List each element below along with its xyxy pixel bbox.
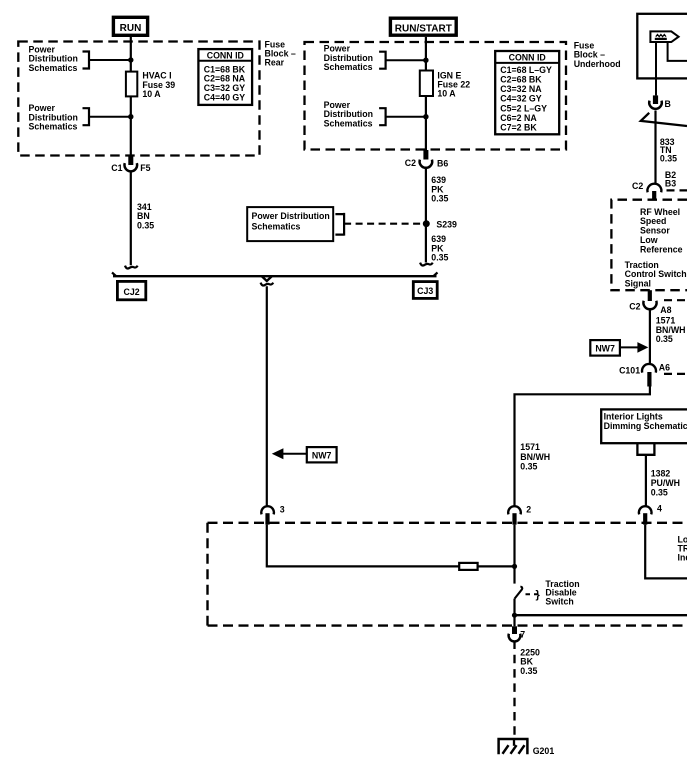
svg-text:NW7: NW7 — [595, 344, 615, 354]
svg-text:0.35: 0.35 — [431, 253, 448, 263]
svg-text:Interior Lights: Interior Lights — [604, 411, 663, 421]
svg-text:NW7: NW7 — [312, 450, 332, 460]
svg-text:A8: A8 — [660, 305, 671, 315]
svg-text:C2: C2 — [632, 181, 643, 191]
svg-text:B6: B6 — [437, 158, 448, 168]
svg-text:CJ2: CJ2 — [124, 287, 140, 297]
svg-text:C2: C2 — [629, 301, 640, 311]
svg-text:Signal: Signal — [625, 279, 651, 289]
svg-text:Schematics: Schematics — [29, 122, 78, 132]
svg-text:Reference: Reference — [640, 244, 683, 254]
svg-text:0.35: 0.35 — [651, 487, 668, 497]
svg-text:Underhood: Underhood — [574, 59, 621, 69]
svg-text:BN/WH: BN/WH — [520, 452, 550, 462]
svg-text:C4=32 GY: C4=32 GY — [500, 94, 541, 104]
svg-text:S239: S239 — [436, 219, 457, 229]
svg-text:C3=32 NA: C3=32 NA — [500, 84, 542, 94]
svg-text:C5=2 L–GY: C5=2 L–GY — [500, 103, 547, 113]
svg-text:C1: C1 — [111, 163, 122, 173]
svg-text:10 A: 10 A — [142, 89, 161, 99]
svg-text:C2: C2 — [405, 158, 416, 168]
svg-text:Block –: Block – — [574, 49, 605, 59]
svg-text:}: } — [536, 589, 541, 601]
svg-text:Rear: Rear — [265, 58, 285, 68]
svg-text:C101: C101 — [619, 366, 640, 376]
svg-text:Schematics: Schematics — [324, 62, 373, 72]
svg-text:Schematics: Schematics — [29, 63, 78, 73]
svg-text:HVAC I: HVAC I — [142, 71, 171, 81]
svg-text:3: 3 — [280, 505, 285, 515]
svg-text:4: 4 — [657, 503, 662, 513]
svg-text:Schematics: Schematics — [252, 221, 301, 231]
svg-text:1571: 1571 — [520, 442, 540, 452]
svg-text:A6: A6 — [659, 363, 670, 373]
svg-text:C7=2 BK: C7=2 BK — [500, 123, 537, 133]
svg-text:0.35: 0.35 — [431, 194, 448, 204]
svg-text:10 A: 10 A — [437, 88, 456, 98]
svg-text:C4=40 GY: C4=40 GY — [204, 92, 245, 102]
svg-text:RUN/START: RUN/START — [395, 23, 452, 34]
svg-text:PU/WH: PU/WH — [651, 478, 680, 488]
svg-text:0.35: 0.35 — [137, 221, 154, 231]
svg-text:Power Distribution: Power Distribution — [252, 211, 330, 221]
svg-text:B: B — [665, 99, 671, 109]
svg-text:C1=68 L–GY: C1=68 L–GY — [500, 65, 552, 75]
svg-text:CJ3: CJ3 — [417, 286, 433, 296]
svg-text:C6=2 NA: C6=2 NA — [500, 113, 537, 123]
svg-text:CONN ID: CONN ID — [207, 51, 244, 61]
svg-text:7: 7 — [520, 630, 525, 640]
svg-text:2: 2 — [526, 505, 531, 515]
svg-text:Schematics: Schematics — [324, 118, 373, 128]
svg-text:0.35: 0.35 — [520, 666, 537, 676]
svg-text:F5: F5 — [140, 163, 150, 173]
svg-text:Indicator: Indicator — [678, 553, 687, 563]
svg-text:Switch: Switch — [545, 596, 573, 606]
svg-text:0.35: 0.35 — [520, 462, 537, 472]
svg-text:B3: B3 — [665, 179, 676, 189]
svg-text:RUN: RUN — [120, 23, 142, 34]
svg-text:0.35: 0.35 — [660, 153, 677, 163]
svg-text:C2=68 BK: C2=68 BK — [500, 75, 542, 85]
svg-text:1382: 1382 — [651, 468, 671, 478]
svg-text:BN: BN — [137, 211, 150, 221]
svg-text:CONN ID: CONN ID — [509, 53, 546, 63]
svg-text:0.35: 0.35 — [656, 334, 673, 344]
svg-text:Dimming Schematics: Dimming Schematics — [604, 421, 687, 431]
svg-text:G201: G201 — [533, 746, 555, 756]
